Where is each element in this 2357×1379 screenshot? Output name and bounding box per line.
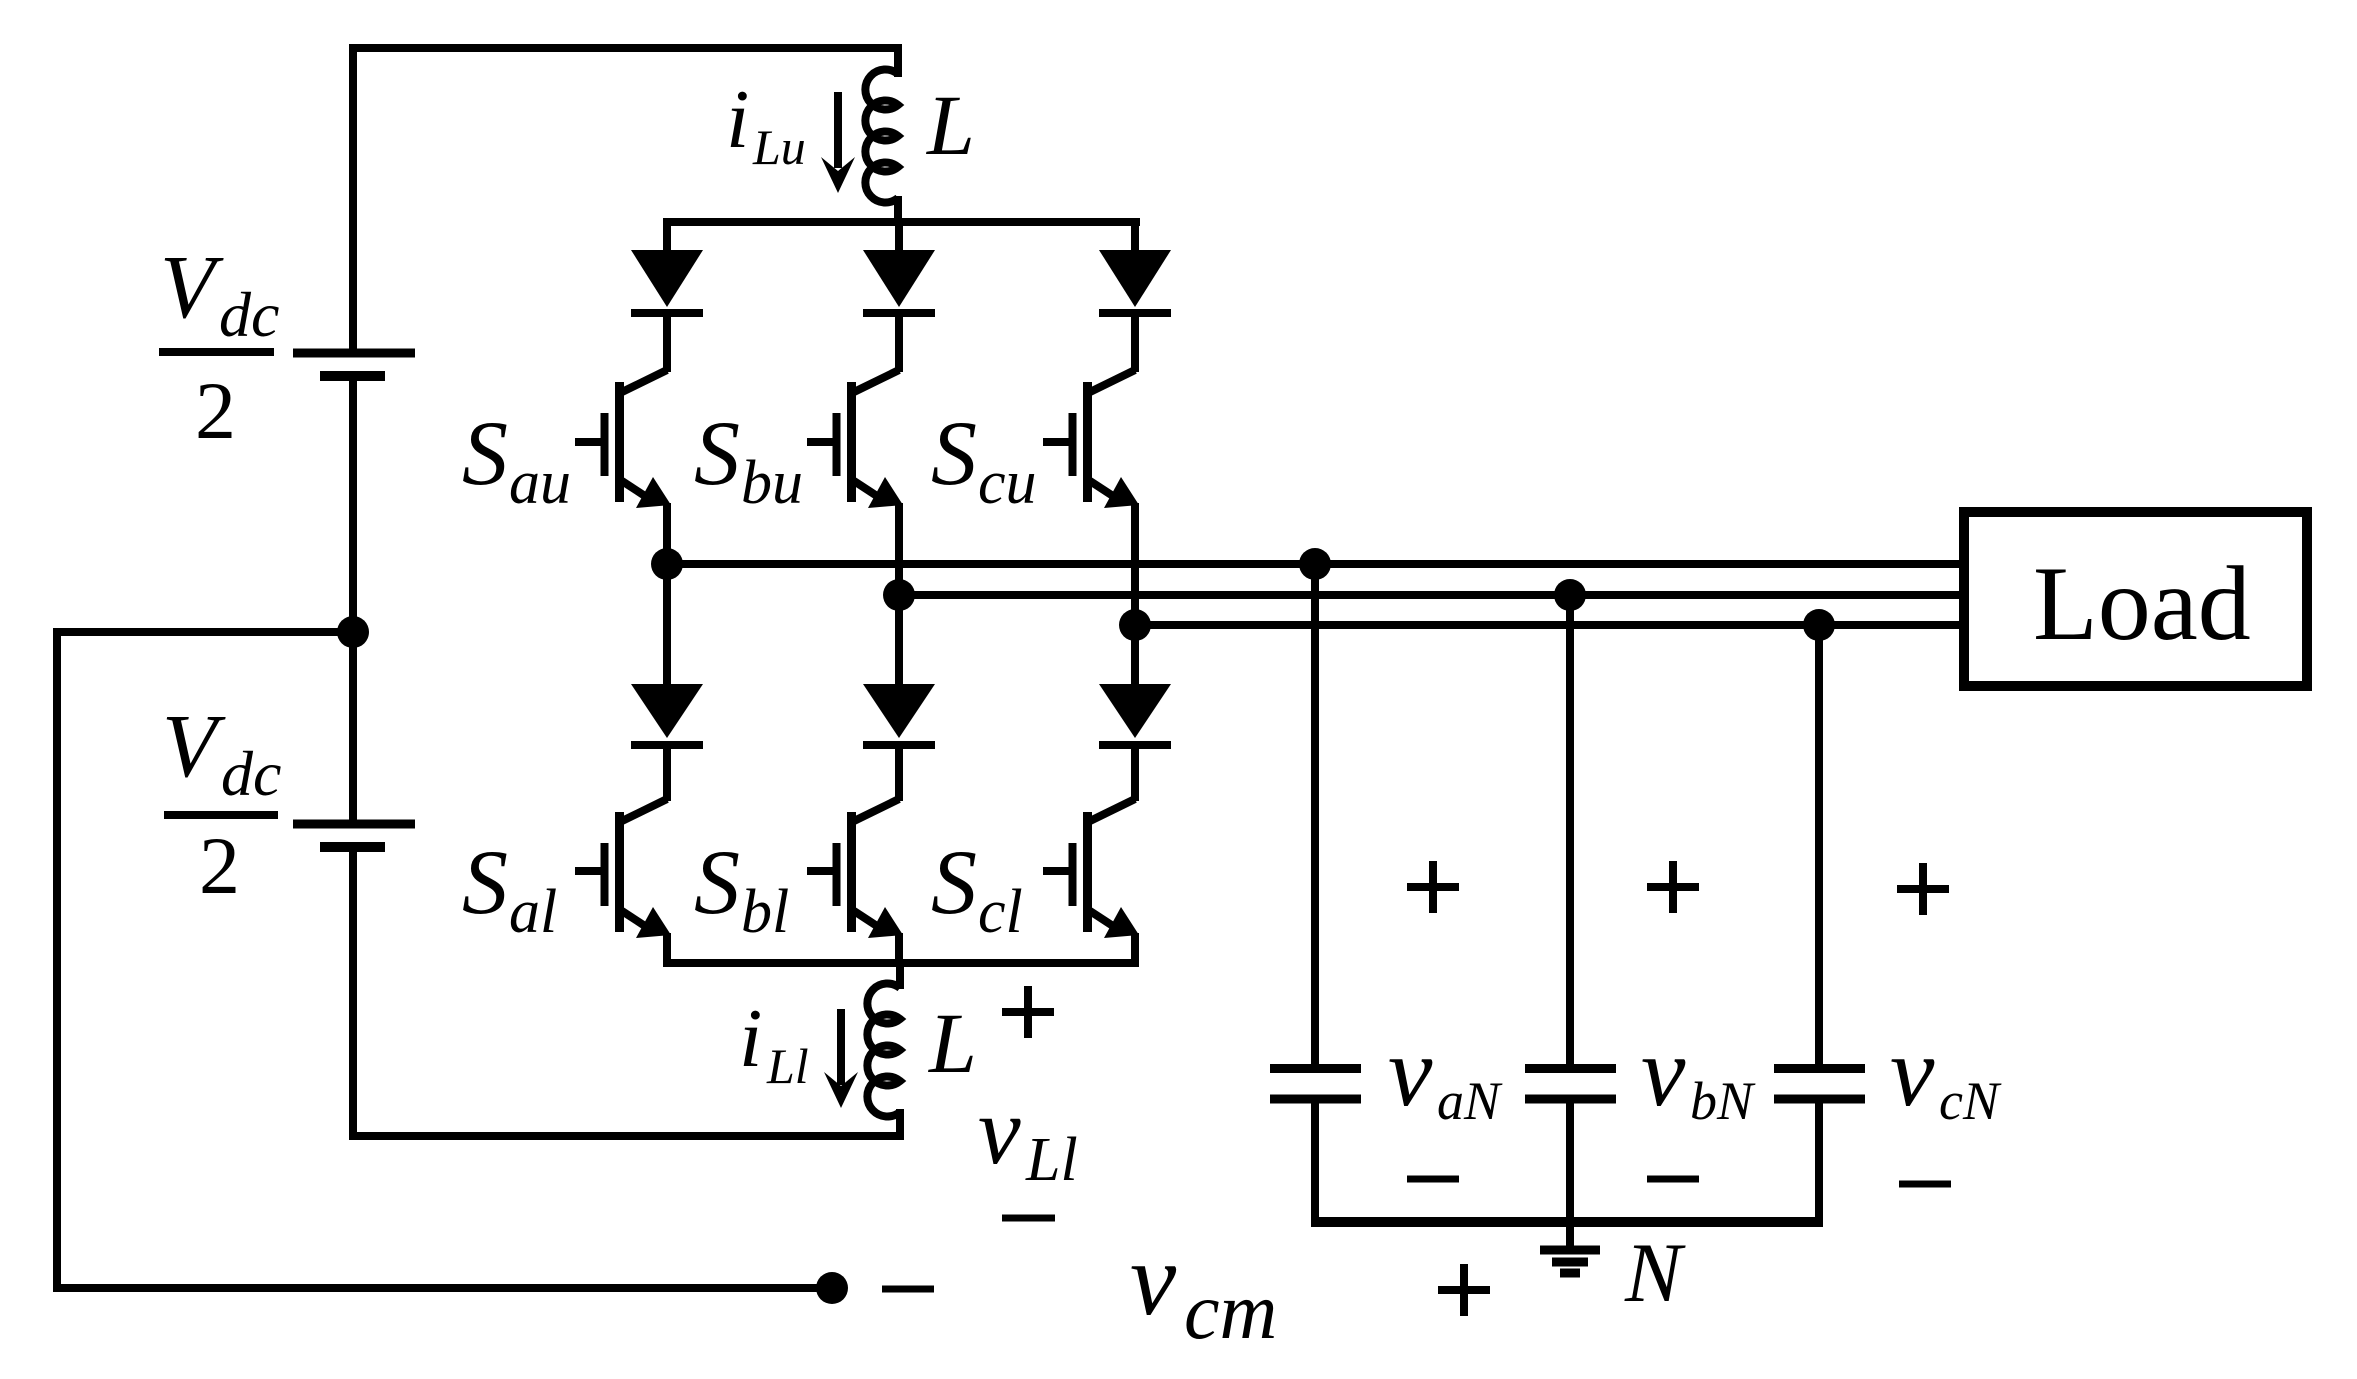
node line c tap [1803, 609, 1835, 641]
wire midpoint to left rail [57, 632, 833, 1288]
label S_cl [931, 831, 1023, 946]
svg-text:cu: cu [978, 449, 1037, 517]
label minus vbN [1647, 1176, 1699, 1183]
wire phase a line [667, 560, 1962, 568]
svg-text:S: S [694, 402, 740, 504]
svg-text:L: L [925, 77, 975, 173]
label plus vcm [1438, 1264, 1490, 1316]
battery B2 Vdc/2 [293, 824, 415, 847]
battery B1 Vdc/2 [293, 353, 415, 376]
label S_bu [694, 402, 803, 517]
wire top dc bus [353, 48, 898, 350]
transistor Sal [575, 799, 671, 938]
label S_bl [694, 831, 789, 946]
wire leg a lower [663, 564, 671, 687]
svg-text:al: al [509, 878, 557, 946]
capacitor CaN [1270, 564, 1361, 1222]
svg-text:bl: bl [741, 878, 789, 946]
label plus vcN [1897, 863, 1949, 915]
label minus vLl [1002, 1215, 1055, 1222]
svg-text:L: L [927, 995, 977, 1091]
transistor Sbu [807, 370, 903, 508]
wire diode Dcl to Scl [1131, 741, 1139, 801]
label S_cu [931, 402, 1037, 517]
transistor Sau [575, 370, 671, 508]
fraction bar upper [159, 348, 274, 356]
arrow i_Lu [821, 92, 855, 193]
wire leg b lower [895, 595, 903, 687]
wire diode Dcu to Scu [1131, 309, 1139, 372]
label v_bN [1641, 1016, 1756, 1131]
svg-text:S: S [694, 831, 740, 933]
diode Dcu [1099, 250, 1171, 313]
wire midpoint to battery B2 [349, 632, 357, 821]
wire battery B1 to midpoint [349, 380, 357, 636]
wire top bus [663, 218, 1140, 226]
node line a tap [1299, 548, 1331, 580]
node c [1119, 609, 1151, 641]
svg-text:cN: cN [1939, 1071, 2002, 1131]
svg-text:cm: cm [1184, 1268, 1277, 1356]
label S_al [462, 831, 557, 946]
wire leg c lower [1131, 625, 1139, 687]
transistor Scu [1043, 370, 1139, 508]
transistor Sbl [807, 799, 903, 938]
wire phase c line [1135, 621, 1962, 629]
inductor L upper [865, 69, 898, 226]
svg-text:S: S [931, 402, 977, 504]
label Vdc/2 upper [160, 238, 279, 456]
svg-text:i: i [726, 73, 749, 166]
wire diode Dbu to Sbu [895, 309, 903, 372]
diode Dcl [1099, 684, 1171, 745]
node a [651, 548, 683, 580]
svg-text:bu: bu [741, 449, 803, 517]
label S_au [462, 402, 571, 517]
inductor L lower [867, 963, 900, 1117]
label i_Lu [726, 73, 806, 175]
node vcm terminal [816, 1272, 848, 1304]
label v_cm [1130, 1222, 1277, 1356]
wire Scu emitter to node c [1131, 503, 1139, 625]
svg-text:Lu: Lu [752, 119, 806, 175]
wire Sbl emitter to lower bus [895, 933, 903, 963]
svg-text:bN: bN [1690, 1071, 1756, 1131]
svg-text:Load: Load [2033, 545, 2251, 662]
label minus vcm terminal [882, 1286, 934, 1293]
ground N [1540, 1250, 1600, 1273]
wire capacitor bus [1311, 1217, 1823, 1227]
fraction bar lower [164, 811, 278, 819]
wire phase b line [899, 591, 1962, 599]
node b [883, 579, 915, 611]
label v_cN [1890, 1016, 2002, 1131]
arrow i_Ll [824, 1009, 858, 1108]
svg-text:2: 2 [195, 365, 236, 456]
wire diode Dal to Sal [663, 741, 671, 801]
svg-text:S: S [462, 402, 508, 504]
wire Sal emitter to lower bus [663, 933, 671, 963]
wire diode Dbl to Sbl [895, 741, 903, 801]
load box [1964, 512, 2307, 686]
wire battery B2 to bottom inductor [353, 851, 900, 1136]
capacitor CcN [1774, 625, 1865, 1222]
svg-text:v: v [978, 1077, 1021, 1184]
wire leg c upper [1131, 218, 1139, 253]
svg-text:v: v [1890, 1016, 1935, 1127]
label plus vLl [1002, 986, 1054, 1038]
svg-text:V: V [160, 238, 224, 337]
diode Dau [631, 250, 703, 313]
label plus vbN [1647, 861, 1699, 913]
wire diode Dau to Sau [663, 309, 671, 372]
node midpoint [337, 616, 369, 648]
svg-text:S: S [931, 831, 977, 933]
svg-text:N: N [1624, 1226, 1686, 1320]
svg-text:aN: aN [1437, 1071, 1503, 1131]
label v_Ll [978, 1077, 1078, 1194]
diode Dbu [863, 250, 935, 313]
svg-text:v: v [1130, 1222, 1177, 1337]
wire leg a upper [663, 218, 671, 253]
label v_aN [1388, 1016, 1503, 1131]
label minus vcN [1899, 1181, 1951, 1188]
svg-text:Ll: Ll [766, 1038, 809, 1094]
svg-text:dc: dc [221, 738, 281, 809]
diode Dbl [863, 684, 935, 745]
svg-text:dc: dc [219, 279, 279, 350]
label plus vaN [1407, 861, 1459, 913]
svg-text:2: 2 [199, 820, 240, 911]
wire Scl emitter to lower bus [1131, 933, 1139, 963]
svg-text:S: S [462, 831, 508, 933]
svg-text:Ll: Ll [1025, 1126, 1078, 1194]
node line b tap [1554, 579, 1586, 611]
svg-text:cl: cl [978, 878, 1023, 946]
svg-text:V: V [162, 697, 226, 796]
diode Dal [631, 684, 703, 745]
wire Sbu emitter to node b [895, 503, 903, 595]
svg-text:v: v [1641, 1016, 1686, 1127]
label minus vaN [1407, 1176, 1459, 1183]
label i_Ll [739, 992, 809, 1094]
svg-text:i: i [739, 992, 762, 1085]
wire leg b upper [895, 218, 903, 253]
svg-text:au: au [509, 449, 571, 517]
transistor Scl [1043, 799, 1139, 938]
svg-text:v: v [1388, 1016, 1433, 1127]
wire lower bus [663, 959, 1139, 967]
capacitor CbN [1525, 595, 1616, 1250]
label Vdc/2 lower [162, 697, 281, 911]
wire Sau emitter to node a [663, 503, 671, 564]
